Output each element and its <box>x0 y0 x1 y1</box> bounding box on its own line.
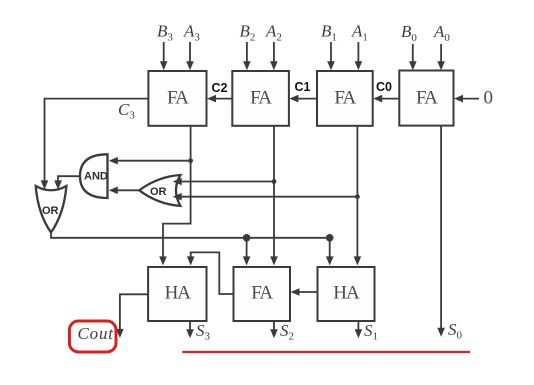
wire OR G2 output to AND lower input <box>109 187 139 195</box>
svg-text:FA: FA <box>416 88 438 109</box>
wire input B2 <box>243 42 251 70</box>
and-gate G1 (points left) <box>80 154 108 198</box>
node correction to HA S1 <box>326 234 334 266</box>
svg-text:C0: C0 <box>376 80 392 94</box>
wire carry from HA S1 to FA S2 <box>291 288 318 296</box>
wire carry C2 <box>207 95 232 103</box>
wire input A0 <box>437 44 445 70</box>
wire output S1 <box>355 321 363 338</box>
wire correction net from OR G3 output <box>51 232 330 237</box>
svg-text:FA: FA <box>251 283 273 304</box>
wire output S3 <box>186 321 194 338</box>
full-adder U6 (FA sum S2) <box>234 267 291 321</box>
wire carry C3 to OR gate <box>41 99 149 190</box>
svg-text:FA: FA <box>250 88 272 109</box>
wire OR G2 lower input from node Z1 <box>173 193 358 201</box>
wire carry C0 <box>373 95 399 103</box>
node Z2 junction <box>272 179 277 184</box>
wire Cout from HA S3 <box>116 294 148 338</box>
wire OR G2 upper input from node Z2 <box>173 178 274 186</box>
wire input B3 <box>160 42 168 70</box>
wire input A2 <box>270 42 278 70</box>
svg-text:HA: HA <box>333 283 360 304</box>
node Z3 junction <box>188 158 193 163</box>
wire input B1 <box>327 42 335 70</box>
wire S0 from U0 <box>437 126 445 337</box>
svg-text:OR: OR <box>42 205 59 217</box>
svg-text:AND: AND <box>84 171 108 183</box>
node correction to FA S2 <box>243 234 251 266</box>
node Z1 junction <box>355 194 360 199</box>
svg-text:0: 0 <box>484 88 493 109</box>
svg-text:HA: HA <box>165 283 192 304</box>
wire Z3 from U3 to HA S3 <box>159 126 190 266</box>
full-adder U3 (FA bit3) <box>148 71 206 126</box>
wire input B0 <box>409 44 417 70</box>
svg-text:FA: FA <box>334 88 356 109</box>
wire input A1 <box>355 42 363 70</box>
red underline <box>182 351 470 353</box>
svg-text:OR: OR <box>150 186 167 198</box>
half-adder U7 (HA sum S3) <box>148 267 206 321</box>
or-gate G3 (output OR, points down) <box>36 186 67 232</box>
wire carry from FA S2 to HA S3 <box>187 252 234 294</box>
full-adder U2 (FA bit2) <box>232 71 289 126</box>
wire carry C1 <box>289 95 317 103</box>
wire Z2 from U2 to FA S2 <box>270 126 278 266</box>
wire output S2 <box>270 321 278 338</box>
wire carry-in 0 to U0 <box>454 95 479 103</box>
wire AND upper input from node Z3 <box>109 157 191 165</box>
svg-text:FA: FA <box>167 88 189 109</box>
svg-text:Cout: Cout <box>78 324 115 343</box>
half-adder U5 (HA sum S1) <box>318 267 375 321</box>
or-gate G2 (middle OR, points left) <box>139 175 180 206</box>
label Cout in red box <box>69 321 116 352</box>
full-adder U1 (FA bit1) <box>317 71 373 126</box>
wire Z1 from U1 to HA S1 <box>354 126 362 266</box>
full-adder U0 (FA bit0) <box>399 71 453 126</box>
svg-text:C2: C2 <box>212 81 228 95</box>
svg-text:C1: C1 <box>295 80 311 94</box>
wire AND output to OR G3 input <box>54 176 80 189</box>
wire input A3 <box>186 42 194 70</box>
